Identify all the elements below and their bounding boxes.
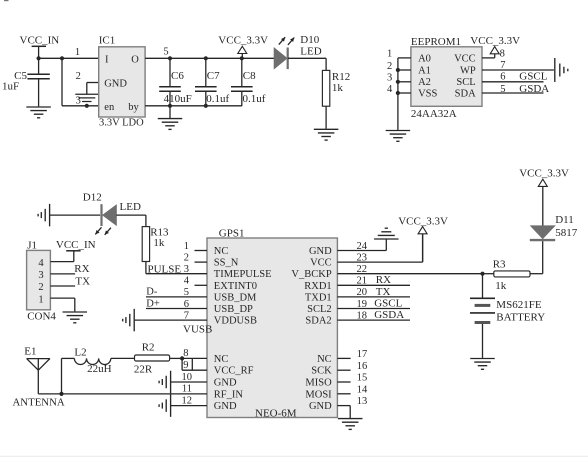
svg-text:3: 3 (387, 73, 392, 84)
svg-text:en: en (104, 102, 115, 113)
svg-text:SCK: SCK (311, 366, 332, 377)
svg-text:13: 13 (357, 396, 368, 407)
svg-text:I: I (105, 54, 109, 65)
svg-text:VCC_3.3V: VCC_3.3V (519, 167, 569, 179)
svg-text:5: 5 (163, 46, 168, 57)
svg-text:1k: 1k (495, 280, 507, 292)
svg-text:6: 6 (500, 72, 505, 83)
svg-text:E1: E1 (24, 346, 36, 358)
svg-text:A1: A1 (418, 65, 431, 76)
svg-text:USB_DM: USB_DM (214, 292, 257, 303)
svg-text:MOSI: MOSI (305, 389, 332, 400)
svg-text:0.1uf: 0.1uf (206, 93, 229, 105)
svg-text:SCL2: SCL2 (307, 304, 332, 315)
svg-text:24AA32A: 24AA32A (411, 108, 457, 120)
svg-text:VUSB: VUSB (183, 323, 212, 335)
svg-text:3: 3 (76, 96, 81, 107)
svg-text:5817: 5817 (555, 227, 578, 239)
svg-text:J1: J1 (27, 239, 37, 251)
svg-text:1: 1 (75, 47, 80, 58)
svg-text:MS621FE: MS621FE (496, 299, 542, 311)
svg-text:VDDUSB: VDDUSB (214, 316, 257, 327)
svg-text:GND: GND (309, 246, 332, 257)
svg-text:D-: D- (146, 287, 158, 298)
svg-text:SCL: SCL (456, 77, 475, 88)
svg-text:GND: GND (104, 79, 127, 90)
svg-text:VCC_3.3V: VCC_3.3V (470, 35, 520, 47)
svg-text:R3: R3 (493, 259, 506, 271)
svg-text:GSCL: GSCL (374, 297, 402, 309)
svg-text:LED: LED (300, 46, 321, 58)
svg-text:SDA2: SDA2 (305, 316, 331, 327)
svg-text:VCC_3.3V: VCC_3.3V (218, 35, 268, 47)
svg-text:L2: L2 (74, 346, 86, 358)
svg-text:D12: D12 (83, 191, 102, 203)
svg-text:EXTINT0: EXTINT0 (214, 281, 257, 292)
svg-text:C8: C8 (243, 70, 256, 82)
svg-text:TIMEPULSE: TIMEPULSE (214, 269, 272, 280)
svg-text:RX: RX (376, 274, 391, 286)
svg-text:4: 4 (184, 276, 190, 287)
svg-text:1k: 1k (332, 82, 344, 94)
svg-text:9: 9 (183, 360, 188, 371)
svg-text:SDA: SDA (455, 88, 476, 99)
svg-text:1uF: 1uF (2, 80, 19, 92)
svg-text:1: 1 (184, 241, 189, 252)
svg-text:RX: RX (74, 263, 89, 275)
svg-text:4: 4 (38, 258, 44, 269)
svg-text:1k: 1k (153, 237, 165, 249)
svg-text:15: 15 (357, 373, 368, 384)
svg-text:17: 17 (357, 349, 368, 360)
svg-text:NC: NC (317, 354, 332, 365)
svg-text:MISO: MISO (305, 378, 332, 389)
svg-text:GSDA: GSDA (374, 309, 404, 321)
svg-text:8: 8 (183, 348, 188, 359)
svg-text:GND: GND (214, 401, 237, 412)
svg-text:2: 2 (387, 61, 392, 72)
svg-text:R2: R2 (142, 341, 155, 353)
svg-text:SS_N: SS_N (214, 258, 239, 269)
svg-text:2: 2 (184, 252, 189, 263)
svg-text:VCC_IN: VCC_IN (20, 34, 60, 46)
svg-text:GSCL: GSCL (519, 71, 547, 83)
svg-text:PULSE: PULSE (148, 263, 182, 275)
svg-text:8: 8 (500, 49, 505, 60)
svg-text:VCC_IN: VCC_IN (56, 239, 96, 251)
svg-text:GND: GND (309, 401, 332, 412)
svg-text:BATTERY: BATTERY (496, 312, 545, 324)
svg-text:3: 3 (38, 270, 43, 281)
svg-text:D11: D11 (555, 214, 574, 226)
svg-text:A2: A2 (418, 77, 431, 88)
svg-text:V_BCKP: V_BCKP (291, 269, 331, 280)
svg-text:ANTENNA: ANTENNA (13, 396, 65, 408)
svg-text:2: 2 (38, 282, 43, 293)
svg-text:TXD1: TXD1 (305, 292, 332, 303)
svg-text:IC1: IC1 (99, 34, 116, 46)
svg-text:1: 1 (387, 49, 392, 60)
svg-text:RF_IN: RF_IN (214, 389, 244, 400)
svg-text:RXD1: RXD1 (304, 281, 331, 292)
svg-text:CON4: CON4 (27, 311, 56, 323)
svg-text:WP: WP (460, 65, 476, 76)
svg-text:GND: GND (214, 378, 237, 389)
svg-text:22uH: 22uH (87, 363, 112, 375)
svg-text:TX: TX (376, 286, 391, 298)
svg-text:4: 4 (387, 84, 393, 95)
svg-text:1: 1 (38, 294, 43, 305)
svg-text:GSDA: GSDA (519, 83, 549, 95)
svg-text:VCC: VCC (454, 53, 476, 64)
svg-text:USB_DP: USB_DP (214, 304, 253, 315)
svg-text:2: 2 (76, 71, 81, 82)
svg-text:NC: NC (214, 246, 229, 257)
svg-text:NC: NC (214, 354, 229, 365)
svg-text:0.1uf: 0.1uf (243, 93, 266, 105)
svg-text:410uF: 410uF (164, 93, 192, 105)
svg-text:10: 10 (182, 372, 193, 383)
svg-text:12: 12 (182, 395, 193, 406)
svg-text:7: 7 (500, 60, 505, 71)
svg-text:D+: D+ (146, 298, 160, 309)
svg-text:22R: 22R (134, 364, 153, 376)
svg-text:C6: C6 (171, 70, 184, 82)
svg-text:O: O (131, 54, 139, 65)
svg-text:by: by (128, 102, 139, 113)
svg-text:3.3V LDO: 3.3V LDO (99, 118, 144, 129)
svg-text:5: 5 (500, 84, 505, 95)
svg-text:VSS: VSS (418, 88, 437, 99)
svg-text:16: 16 (357, 361, 368, 372)
svg-text:C7: C7 (207, 70, 220, 82)
svg-text:11: 11 (182, 384, 192, 395)
svg-text:VCC_RF: VCC_RF (214, 366, 254, 377)
svg-text:R12: R12 (332, 71, 350, 83)
svg-text:NEO-6M: NEO-6M (255, 407, 297, 419)
svg-text:TX: TX (75, 275, 90, 287)
svg-text:VCC: VCC (310, 258, 332, 269)
svg-text:VCC_3.3V: VCC_3.3V (398, 216, 448, 228)
svg-text:LED: LED (120, 201, 141, 213)
svg-text:A0: A0 (418, 53, 431, 64)
svg-text:14: 14 (357, 384, 368, 395)
svg-text:D10: D10 (300, 34, 319, 46)
